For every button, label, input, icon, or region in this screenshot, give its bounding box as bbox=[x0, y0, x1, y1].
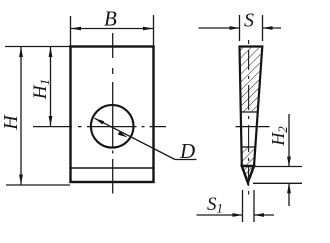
dimension S line with outside arrows bbox=[199, 26, 282, 30]
hatching upper region bbox=[240, 47, 263, 113]
side view vertical centerline bbox=[248, 40, 250, 195]
dimension B line with arrows bbox=[71, 27, 153, 31]
dimension H line with arrows bbox=[19, 47, 23, 185]
dimension H1 line with arrows bbox=[49, 47, 53, 126]
side view section outline bbox=[240, 47, 263, 183]
svg-text:H1: H1 bbox=[30, 79, 52, 100]
dimension B extension lines bbox=[71, 15, 154, 46]
dimension S1 extension lines bbox=[243, 190, 255, 222]
label H (rotated) bbox=[0, 114, 22, 131]
dimension S1 line with outside arrows bbox=[197, 213, 275, 217]
label S1 (subscript 1) bbox=[207, 194, 223, 216]
dimension S extension lines bbox=[240, 15, 263, 41]
svg-text:D: D bbox=[179, 139, 195, 163]
label H2 (rotated, subscript 2) bbox=[268, 126, 290, 146]
svg-text:S1: S1 bbox=[207, 194, 223, 216]
label D bbox=[179, 139, 195, 163]
front view plate outline bbox=[71, 47, 154, 183]
svg-text:H: H bbox=[0, 114, 22, 131]
hatching middle region bbox=[241, 147, 255, 166]
front view inner step line bbox=[71, 167, 154, 169]
label H1 (rotated, subscript 1) bbox=[30, 79, 52, 100]
svg-text:S: S bbox=[244, 10, 254, 32]
dimension H2 line with outside arrows bbox=[287, 114, 291, 206]
leader line for D across hole diameter bbox=[94, 117, 197, 160]
side view hole axis short centerline bbox=[236, 126, 270, 128]
vertical centerline of front view bbox=[112, 33, 114, 194]
dimension H extension lines bbox=[5, 47, 70, 186]
dimension H2 extension lines bbox=[253, 167, 302, 184]
side view hole band boundary lines bbox=[241, 112, 258, 147]
svg-text:B: B bbox=[104, 7, 117, 31]
svg-text:H2: H2 bbox=[268, 126, 290, 146]
label S bbox=[244, 10, 254, 32]
horizontal centerline of hole (also H1 extension) bbox=[33, 126, 166, 128]
label B bbox=[104, 7, 117, 31]
hole circle bbox=[91, 105, 134, 148]
hatching tip wedge bbox=[242, 166, 254, 183]
